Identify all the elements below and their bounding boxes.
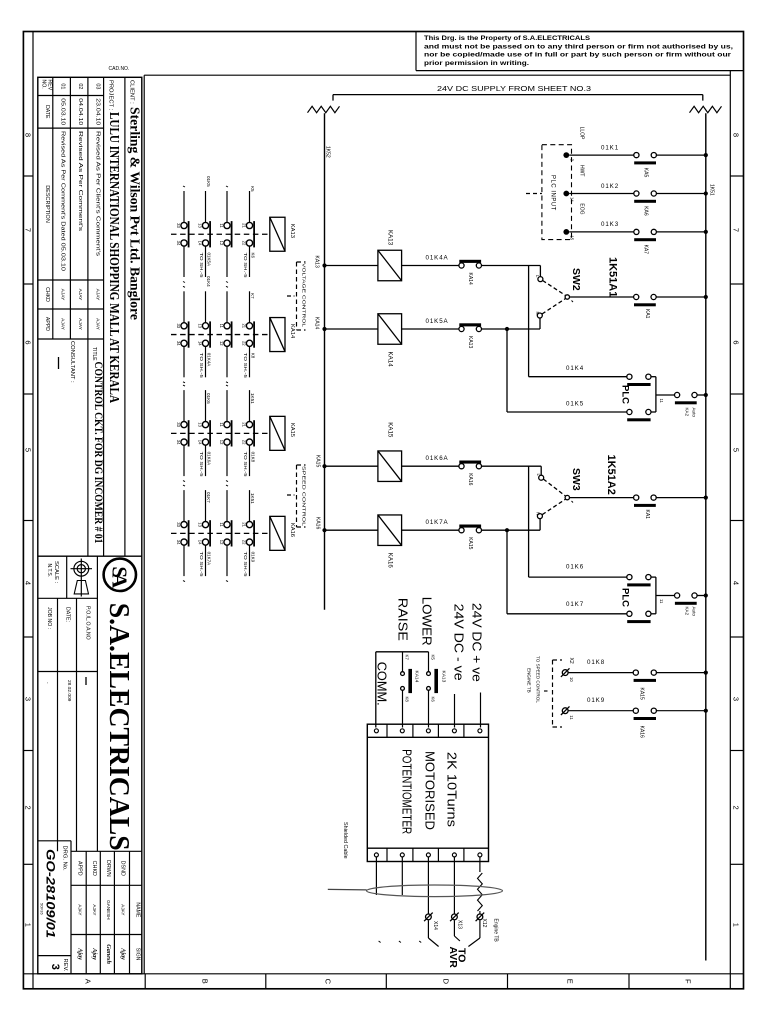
svg-text:ENGINE TB: ENGINE TB xyxy=(527,668,532,693)
svg-text:01K4: 01K4 xyxy=(206,276,211,287)
svg-text:KA14: KA14 xyxy=(467,273,473,285)
svg-text:KA13: KA13 xyxy=(289,224,295,238)
svg-text:11: 11 xyxy=(219,522,224,527)
svg-text:14: 14 xyxy=(569,197,574,202)
svg-text:01K7A: 01K7A xyxy=(426,519,449,526)
svg-text:nor be copied/made use of in f: nor be copied/made use of in full or par… xyxy=(424,52,731,59)
svg-text:K8: K8 xyxy=(405,697,410,703)
wire xyxy=(325,529,378,531)
svg-text:12: 12 xyxy=(219,241,224,246)
svg-text:KA5: KA5 xyxy=(643,168,649,178)
svg-text:SW3: SW3 xyxy=(570,468,582,491)
svg-text:K6: K6 xyxy=(250,253,255,259)
svg-text:01K6A: 01K6A xyxy=(426,455,449,462)
title block xyxy=(38,75,144,974)
svg-text:SCALE :: SCALE : xyxy=(53,561,59,584)
svg-text:2: 2 xyxy=(24,806,33,810)
relay coil KA13 (cluster) xyxy=(270,217,285,251)
svg-text:CONSULTANT :: CONSULTANT : xyxy=(69,341,75,383)
svg-text:TITLE: TITLE xyxy=(91,347,97,361)
svg-text:TO SH.-5: TO SH.-5 xyxy=(199,353,204,379)
relay coil KA13 xyxy=(378,250,402,281)
svg-text:04.04.10: 04.04.10 xyxy=(77,98,83,125)
svg-text:KA16: KA16 xyxy=(386,553,393,569)
svg-text:TO SH.-5: TO SH.-5 xyxy=(243,253,248,279)
svg-text:E: E xyxy=(566,979,575,984)
svg-text:K6: K6 xyxy=(431,697,436,703)
svg-text:Engine TB: Engine TB xyxy=(492,919,498,943)
node bus-KA13 xyxy=(322,263,326,267)
svg-text:and must not be passed on to a: and must not be passed on to any third p… xyxy=(424,43,733,50)
svg-text:KA2: KA2 xyxy=(685,408,690,417)
svg-text:10: 10 xyxy=(569,677,574,682)
svg-text:12: 12 xyxy=(219,341,224,346)
svg-text:CAD.NO.: CAD.NO. xyxy=(109,66,130,72)
svg-text:AJAY: AJAY xyxy=(95,289,101,301)
PLC input dashed box xyxy=(542,145,572,240)
svg-text:GANESH: GANESH xyxy=(106,900,111,919)
svg-text:34: 34 xyxy=(176,540,181,545)
svg-text:24V DC + ve: 24V DC + ve xyxy=(470,603,485,682)
svg-text:KA15: KA15 xyxy=(467,537,473,549)
svg-text:22: 22 xyxy=(242,540,247,545)
wire xyxy=(325,265,378,267)
terminal X12 xyxy=(477,914,483,920)
svg-text:PROJECT :: PROJECT : xyxy=(108,80,114,111)
svg-text:KA16: KA16 xyxy=(639,726,645,738)
svg-text:SW2: SW2 xyxy=(570,268,582,291)
node 01K7 branch xyxy=(505,528,509,532)
svg-text:K7: K7 xyxy=(405,655,410,661)
svg-text:13: 13 xyxy=(198,522,203,527)
terminal X13 xyxy=(452,914,458,920)
svg-text:SPEED CONTROL: SPEED CONTROL xyxy=(302,466,307,527)
svg-text:3: 3 xyxy=(49,964,61,970)
wire xyxy=(656,231,706,233)
svg-text:5: 5 xyxy=(24,448,33,452)
svg-text:CHKD: CHKD xyxy=(44,287,50,302)
svg-text:AVR: AVR xyxy=(447,947,459,969)
wire right bus xyxy=(705,113,707,960)
svg-text:13: 13 xyxy=(198,323,203,328)
svg-text:P.O./L.O.A.NO: P.O./L.O.A.NO xyxy=(85,606,91,640)
svg-text:34: 34 xyxy=(176,241,181,246)
wire 01K7 branch xyxy=(507,613,627,615)
svg-text:12: 12 xyxy=(219,540,224,545)
wire comm jumper xyxy=(376,651,429,653)
svg-text:MOTORISED: MOTORISED xyxy=(423,751,438,830)
svg-text:3: 3 xyxy=(732,697,741,701)
wire xyxy=(402,529,459,531)
svg-text:B: B xyxy=(201,979,210,984)
svg-text:24V DC - ve: 24V DC - ve xyxy=(452,604,467,681)
svg-text:KA1: KA1 xyxy=(644,309,650,319)
svg-text:01: 01 xyxy=(60,83,66,89)
svg-text:01K5: 01K5 xyxy=(566,400,584,407)
svg-text:01K6: 01K6 xyxy=(206,393,211,404)
svg-text:CHKD: CHKD xyxy=(91,861,97,876)
svg-text:33: 33 xyxy=(176,422,181,427)
wire xyxy=(325,465,378,467)
svg-text:AJAY: AJAY xyxy=(77,318,83,330)
contact Auto KA2 (SW3) xyxy=(675,593,680,598)
relay coil KA14 (cluster) xyxy=(270,318,285,352)
svg-text:AJAY: AJAY xyxy=(121,904,126,915)
group bracket SPEED CONTROL (KA15/KA16) xyxy=(296,465,298,527)
svg-text:21: 21 xyxy=(242,223,247,228)
svg-text:14: 14 xyxy=(198,440,203,445)
wire xyxy=(656,154,706,156)
svg-text:KA15: KA15 xyxy=(386,422,393,438)
svg-text:KA15: KA15 xyxy=(289,423,295,437)
relay KA14 auxiliary contact group xyxy=(171,276,295,383)
svg-text:SIGN: SIGN xyxy=(135,948,141,961)
svg-text:K8: K8 xyxy=(250,353,255,359)
svg-text:5OF26: 5OF26 xyxy=(40,903,44,915)
svg-text:01K5A: 01K5A xyxy=(426,318,449,325)
svg-text:11: 11 xyxy=(569,715,574,720)
svg-text:Revised As Per Comment's: Revised As Per Comment's xyxy=(77,131,83,232)
svg-text:prior permission in writing.: prior permission in writing. xyxy=(424,60,529,67)
svg-text:1: 1 xyxy=(24,923,33,927)
svg-text:AJAY: AJAY xyxy=(77,904,82,915)
contact Auto KA2 xyxy=(675,392,680,397)
svg-text:15: 15 xyxy=(569,235,574,240)
svg-text:1K51: 1K51 xyxy=(250,393,255,404)
wire xyxy=(656,193,706,195)
fuse 1K51 xyxy=(690,106,722,112)
svg-text:21: 21 xyxy=(242,323,247,328)
svg-text:X13: X13 xyxy=(456,920,462,929)
svg-text:APPD: APPD xyxy=(44,317,50,331)
terminal X14 xyxy=(426,914,432,920)
relay KA16 auxiliary contact group xyxy=(171,485,295,581)
svg-text:K5: K5 xyxy=(431,655,436,661)
svg-text:21: 21 xyxy=(242,422,247,427)
svg-text:05.03.10: 05.03.10 xyxy=(60,98,66,125)
wire xyxy=(482,465,542,467)
wire left bus xyxy=(324,113,326,610)
svg-text:K7: K7 xyxy=(250,293,255,299)
svg-text:KA14: KA14 xyxy=(386,352,393,368)
contact KA15 (01K7A) xyxy=(459,528,464,533)
svg-text:01K5: 01K5 xyxy=(206,176,211,187)
svg-text:D: D xyxy=(442,979,451,985)
svg-text:14: 14 xyxy=(198,341,203,346)
wire PLC outputs join (SW3) xyxy=(651,576,656,578)
svg-text:4: 4 xyxy=(732,581,741,585)
wire xyxy=(568,710,633,712)
svg-text:PLC: PLC xyxy=(619,385,630,404)
svg-text:Auto: Auto xyxy=(692,408,697,418)
svg-text:R: R xyxy=(535,512,540,515)
svg-text:03: 03 xyxy=(95,83,101,89)
svg-text:3: 3 xyxy=(24,697,33,701)
contact KA14 (K7/K8 raise) xyxy=(402,652,404,672)
wire xyxy=(402,465,459,467)
svg-text:02: 02 xyxy=(77,83,83,89)
svg-text:GO-28109/01: GO-28109/01 xyxy=(44,849,58,938)
svg-text:DSND: DSND xyxy=(120,861,126,876)
svg-text:X12: X12 xyxy=(481,919,487,928)
wire xyxy=(568,672,633,674)
svg-text:KA14: KA14 xyxy=(289,324,295,339)
contact KA7 (01K3) xyxy=(634,229,639,234)
wire xyxy=(569,193,634,195)
wire PLC outputs join xyxy=(651,376,656,378)
svg-text:S.A.ELECTRICALS: S.A.ELECTRICALS xyxy=(103,603,135,851)
svg-text:24V DC SUPPLY FROM SHEET NO.3: 24V DC SUPPLY FROM SHEET NO.3 xyxy=(437,84,591,93)
relay KA15 auxiliary contact group xyxy=(171,385,295,482)
svg-text:TO SH.-5: TO SH.-5 xyxy=(199,452,204,478)
wire pot bottom leads xyxy=(375,857,377,895)
svg-text:KA16: KA16 xyxy=(467,473,473,485)
svg-text:LLOP: LLOP xyxy=(579,127,585,140)
motorised potentiometer box xyxy=(367,724,488,861)
svg-text:33: 33 xyxy=(176,522,181,527)
svg-text:AJAY: AJAY xyxy=(77,289,83,301)
svg-text:Ajay: Ajay xyxy=(91,947,98,960)
svg-text:Revised As Per Comment's Dated: Revised As Per Comment's Dated 05.03.10 xyxy=(60,131,66,271)
svg-text:01K5A: 01K5A xyxy=(206,253,211,267)
svg-text:Ajay: Ajay xyxy=(76,947,83,960)
svg-text:F: F xyxy=(684,979,693,984)
node bus-KA14 xyxy=(322,327,326,331)
relay KA13 auxiliary contact group xyxy=(171,176,295,283)
svg-text:TO SH.-5: TO SH.-5 xyxy=(199,253,204,279)
net 24V DC supply from sheet no.3 xyxy=(333,94,703,96)
svg-text:X14: X14 xyxy=(432,921,438,930)
svg-text:01K8: 01K8 xyxy=(587,659,605,666)
node 01K5 branch xyxy=(505,327,509,331)
svg-text:21: 21 xyxy=(242,522,247,527)
svg-text:KA13: KA13 xyxy=(386,230,393,246)
svg-text:AJAY: AJAY xyxy=(92,904,97,915)
contact KA1 xyxy=(634,294,639,299)
wire SW2 common to KA1 xyxy=(570,296,634,298)
selector switch SW2 xyxy=(539,266,541,277)
group bracket VOLTAGE CONTROL (KA13/KA14) xyxy=(296,262,298,330)
svg-text:2: 2 xyxy=(732,806,741,810)
svg-text:REV.: REV. xyxy=(62,959,68,972)
svg-text:NO.: NO. xyxy=(40,80,46,89)
wire xyxy=(402,328,459,330)
wire 01K6 branch xyxy=(528,466,530,577)
svg-text:Revised As Per Client's Commen: Revised As Per Client's Comment's xyxy=(95,131,101,257)
svg-text:01K6: 01K6 xyxy=(566,563,584,570)
svg-text:5: 5 xyxy=(732,448,741,452)
svg-text:11: 11 xyxy=(659,399,664,404)
svg-text:1K51: 1K51 xyxy=(250,493,255,504)
svg-text:34: 34 xyxy=(176,341,181,346)
wire xyxy=(402,265,459,267)
svg-text:CONTROL CKT. FOR DG INCOMER #: CONTROL CKT. FOR DG INCOMER # 01 xyxy=(92,362,106,544)
svg-text:TO SH.-5: TO SH.-5 xyxy=(199,552,204,578)
svg-text:KA13: KA13 xyxy=(314,256,320,268)
svg-text:33: 33 xyxy=(176,223,181,228)
selector switch SW3 xyxy=(540,466,542,475)
svg-text:7: 7 xyxy=(732,228,741,232)
svg-text:KA7: KA7 xyxy=(643,245,649,255)
wire 24V DC +ve stub xyxy=(480,693,482,728)
wire 01K4 branch xyxy=(528,266,530,377)
relay coil KA14 xyxy=(378,314,402,345)
svg-text:CLIENT :: CLIENT : xyxy=(129,80,135,104)
svg-text:01K7A: 01K7A xyxy=(206,552,211,566)
svg-text:KA15: KA15 xyxy=(315,455,321,467)
svg-text:NAME: NAME xyxy=(135,902,141,918)
node PLC input LLOP xyxy=(563,152,569,158)
svg-text:22: 22 xyxy=(242,440,247,445)
svg-text:KA14: KA14 xyxy=(414,671,420,683)
svg-text:12: 12 xyxy=(219,440,224,445)
svg-text:PLC: PLC xyxy=(619,588,630,607)
relay coil KA16 (cluster) xyxy=(270,516,285,550)
svg-text:A: A xyxy=(84,979,93,984)
svg-text:JOB NO :: JOB NO : xyxy=(46,607,52,629)
svg-text:R: R xyxy=(535,312,540,315)
svg-text:11: 11 xyxy=(219,422,224,427)
svg-text:VOLTAGE CONTROL: VOLTAGE CONTROL xyxy=(302,263,307,328)
contact KA15 (01K8) xyxy=(633,670,638,675)
svg-text:8: 8 xyxy=(24,133,33,137)
svg-text:1K52: 1K52 xyxy=(325,146,331,158)
contact KA5 (01K1) xyxy=(634,153,639,158)
svg-text:6: 6 xyxy=(24,340,33,344)
note disclaimer box xyxy=(415,32,417,71)
resistor element on X12 lead xyxy=(478,873,483,911)
svg-text:01K2: 01K2 xyxy=(601,183,619,190)
svg-text:1K51A2: 1K51A2 xyxy=(605,455,617,495)
wire xyxy=(325,328,378,330)
contact KA16 (01K6A) xyxy=(459,464,464,469)
svg-text:Sterling & Wilson Pvt Ltd. Ban: Sterling & Wilson Pvt Ltd. Banglore xyxy=(128,107,143,320)
svg-text:Shielded Cable: Shielded Cable xyxy=(342,822,348,859)
svg-text:KA14: KA14 xyxy=(314,317,320,329)
svg-text:01K7: 01K7 xyxy=(206,492,211,503)
svg-text:6: 6 xyxy=(732,340,741,344)
wire xyxy=(482,529,541,531)
svg-text:RAISE: RAISE xyxy=(396,598,411,641)
svg-text:TO SH.-5: TO SH.-5 xyxy=(243,452,248,478)
contact KA14 (01K4A) xyxy=(459,263,464,268)
svg-text:2K 10Turns: 2K 10Turns xyxy=(445,752,460,828)
svg-text:TO SH.-5: TO SH.-5 xyxy=(243,552,248,578)
svg-text:LOWER: LOWER xyxy=(420,597,435,646)
svg-text:11: 11 xyxy=(659,599,664,604)
svg-text:34: 34 xyxy=(176,440,181,445)
relay coil KA16 xyxy=(378,515,402,546)
svg-text:01K9: 01K9 xyxy=(250,552,255,563)
svg-text:AJAY: AJAY xyxy=(60,289,66,301)
svg-text:KA16: KA16 xyxy=(315,517,321,529)
svg-text:8: 8 xyxy=(732,133,741,137)
svg-text:Ganesh: Ganesh xyxy=(105,944,112,964)
svg-text:1: 1 xyxy=(732,923,741,927)
svg-text:1K51: 1K51 xyxy=(709,184,715,196)
node PLC input EOG xyxy=(563,229,569,235)
node bus-KA16 xyxy=(322,528,326,532)
svg-text:KA2: KA2 xyxy=(685,607,690,616)
svg-text:X2: X2 xyxy=(568,658,574,664)
svg-text:N.T.S.: N.T.S. xyxy=(46,564,52,578)
svg-text:01K6A: 01K6A xyxy=(206,452,211,466)
svg-text:4: 4 xyxy=(24,581,33,585)
company logo xyxy=(104,559,136,591)
terminal X2-10 xyxy=(562,670,568,676)
svg-text:DATE:: DATE: xyxy=(65,607,71,622)
svg-text:DRG. No.: DRG. No. xyxy=(62,846,68,872)
svg-text:HWT: HWT xyxy=(579,165,585,176)
svg-text:22: 22 xyxy=(242,341,247,346)
shielded cable ellipse xyxy=(367,885,503,897)
svg-text:EOG: EOG xyxy=(579,203,585,214)
third angle projection symbol xyxy=(77,565,85,573)
wire xyxy=(482,328,541,330)
svg-text:AJAY: AJAY xyxy=(60,318,66,330)
svg-text:28.02.009: 28.02.009 xyxy=(66,680,72,702)
svg-text:7: 7 xyxy=(24,228,33,232)
svg-text:TO SH.-5: TO SH.-5 xyxy=(243,353,248,379)
svg-text:33: 33 xyxy=(176,323,181,328)
fuse 1K52 xyxy=(308,106,340,112)
svg-text:01K4: 01K4 xyxy=(566,365,584,372)
svg-text:Auto: Auto xyxy=(692,607,697,617)
svg-text:DRWN: DRWN xyxy=(105,860,111,877)
svg-text:LULU INTERNATIONAL SHOPPING MA: LULU INTERNATIONAL SHOPPING MALL AT KERA… xyxy=(107,112,122,403)
svg-text:01K4A: 01K4A xyxy=(426,255,449,262)
svg-text:AJAY: AJAY xyxy=(95,318,101,330)
svg-text:This Drg. is the Property of S: This Drg. is the Property of S.A.ELECTRI… xyxy=(424,35,591,42)
svg-text:01K1: 01K1 xyxy=(601,144,619,151)
contact KA13 (01K5A) xyxy=(459,326,464,331)
relay coil KA15 (cluster) xyxy=(270,416,285,450)
svg-text:01K9: 01K9 xyxy=(587,697,605,704)
contact KA16 (01K9) xyxy=(633,708,638,713)
svg-text:KA1: KA1 xyxy=(644,510,650,520)
svg-text:11: 11 xyxy=(219,324,224,329)
label TO AVR xyxy=(427,921,429,939)
svg-text:01K4A: 01K4A xyxy=(206,353,211,367)
svg-text:01K8: 01K8 xyxy=(250,452,255,463)
svg-text:KA15: KA15 xyxy=(639,688,645,700)
svg-text:23.04.10: 23.04.10 xyxy=(95,98,101,125)
wire xyxy=(482,265,541,267)
svg-text:01K7: 01K7 xyxy=(566,601,584,608)
svg-text:KA6: KA6 xyxy=(643,206,649,216)
contact KA13 (K5/K6 lower) xyxy=(428,652,430,672)
svg-text:POTENTIOMETER: POTENTIOMETER xyxy=(400,749,414,834)
svg-text:KA13: KA13 xyxy=(467,336,473,348)
contact KA1 (SW3) xyxy=(634,495,639,500)
svg-text:1K51A1: 1K51A1 xyxy=(607,257,619,297)
wire xyxy=(569,231,634,233)
node bus-KA15 xyxy=(322,464,326,468)
svg-text:Ajay: Ajay xyxy=(120,947,127,960)
svg-text:COMM.: COMM. xyxy=(375,662,390,706)
svg-text:DESCRIPTION: DESCRIPTION xyxy=(44,185,50,223)
contact KA6 (01K2) xyxy=(634,191,639,196)
wire 24V DC -ve stub xyxy=(454,694,456,728)
svg-text:KA13: KA13 xyxy=(441,671,447,683)
terminal X2-11 xyxy=(562,708,568,714)
node PLC input HWT xyxy=(563,191,569,197)
svg-text:PLC INPUT: PLC INPUT xyxy=(550,175,556,211)
svg-text:13: 13 xyxy=(198,223,203,228)
svg-text:01K3: 01K3 xyxy=(601,221,619,228)
svg-text:C: C xyxy=(323,979,332,985)
svg-text:KA16: KA16 xyxy=(289,523,295,537)
